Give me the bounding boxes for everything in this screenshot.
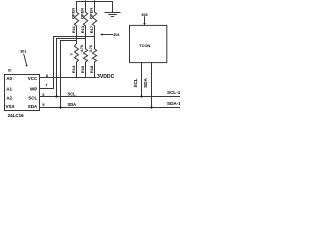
svg-text:SDA-1: SDA-1 <box>167 101 180 106</box>
301 pointer line <box>24 54 27 65</box>
svg-text:8: 8 <box>46 74 48 78</box>
svg-text:OPEN: OPEN <box>70 8 75 19</box>
resistor R18 <box>92 37 96 78</box>
resistor R16 <box>83 39 87 78</box>
svg-text:4.7K: 4.7K <box>80 44 84 52</box>
svg-text:R13: R13 <box>80 25 85 33</box>
node junction TCON SDA <box>150 106 152 108</box>
301 arrowhead <box>25 65 27 67</box>
svg-text:R11: R11 <box>71 25 76 33</box>
ground <box>112 2 114 13</box>
svg-text:R16: R16 <box>80 65 85 73</box>
svg-text:SCL: SCL <box>68 92 77 97</box>
svg-text:303: 303 <box>141 13 147 17</box>
resistor R11 <box>74 2 78 41</box>
wire TCON SDA pin <box>151 63 153 108</box>
svg-text:TCON: TCON <box>139 43 150 48</box>
svg-text:OPEN: OPEN <box>88 8 93 19</box>
svg-text:24LC16: 24LC16 <box>8 113 25 118</box>
svg-text:301: 301 <box>20 50 26 54</box>
svg-text:A1: A1 <box>6 87 12 92</box>
svg-text:SDA: SDA <box>143 77 148 87</box>
node junction TCON SCL <box>140 95 142 97</box>
node junction SCL pullup <box>55 95 57 97</box>
IC U301 box <box>5 75 40 111</box>
wire tap column2 to SCL <box>57 39 86 97</box>
svg-text:0: 0 <box>70 53 74 55</box>
svg-text:WP: WP <box>30 87 37 92</box>
node junction SDA pullup <box>59 106 61 108</box>
svg-text:SCL-1: SCL-1 <box>167 90 180 95</box>
svg-text:7: 7 <box>45 84 47 88</box>
svg-text:IC: IC <box>8 69 12 73</box>
resistor R13 <box>83 1 87 39</box>
svg-text:SDA: SDA <box>28 104 38 109</box>
304 arrowhead <box>100 33 102 35</box>
svg-text:VCC: VCC <box>28 76 38 81</box>
svg-text:VSS: VSS <box>6 104 15 109</box>
svg-text:R17: R17 <box>89 25 94 33</box>
TCON U303 box <box>130 25 167 62</box>
svg-text:304: 304 <box>113 33 120 37</box>
svg-text:6: 6 <box>42 93 44 97</box>
wire tap column3 to WP <box>40 37 95 89</box>
svg-text:SCL: SCL <box>28 95 37 100</box>
svg-text:R18: R18 <box>89 65 94 73</box>
303 arrowhead <box>143 23 146 25</box>
svg-text:R14: R14 <box>71 65 76 73</box>
wire TCON SCL pin <box>141 63 143 97</box>
wire tap column1 to SDA <box>61 41 77 108</box>
svg-text:SCL: SCL <box>133 78 138 87</box>
wire SDA bus <box>40 107 181 109</box>
svg-text:A2: A2 <box>6 95 12 100</box>
resistor R14 <box>75 41 79 78</box>
wire top rail to ground <box>77 1 113 3</box>
svg-text:3VDDC: 3VDDC <box>97 74 115 80</box>
svg-text:SDA: SDA <box>68 102 77 107</box>
svg-text:OPEN: OPEN <box>79 8 84 19</box>
svg-text:4.7K: 4.7K <box>89 44 93 52</box>
304 arrow line <box>102 34 113 36</box>
wire SCL bus <box>40 96 181 98</box>
303 pointer line <box>144 17 146 24</box>
wire VCC 3VDDC rail <box>40 77 97 79</box>
svg-text:5: 5 <box>42 103 44 107</box>
svg-text:A0: A0 <box>6 76 12 81</box>
resistor R17 <box>92 1 96 37</box>
